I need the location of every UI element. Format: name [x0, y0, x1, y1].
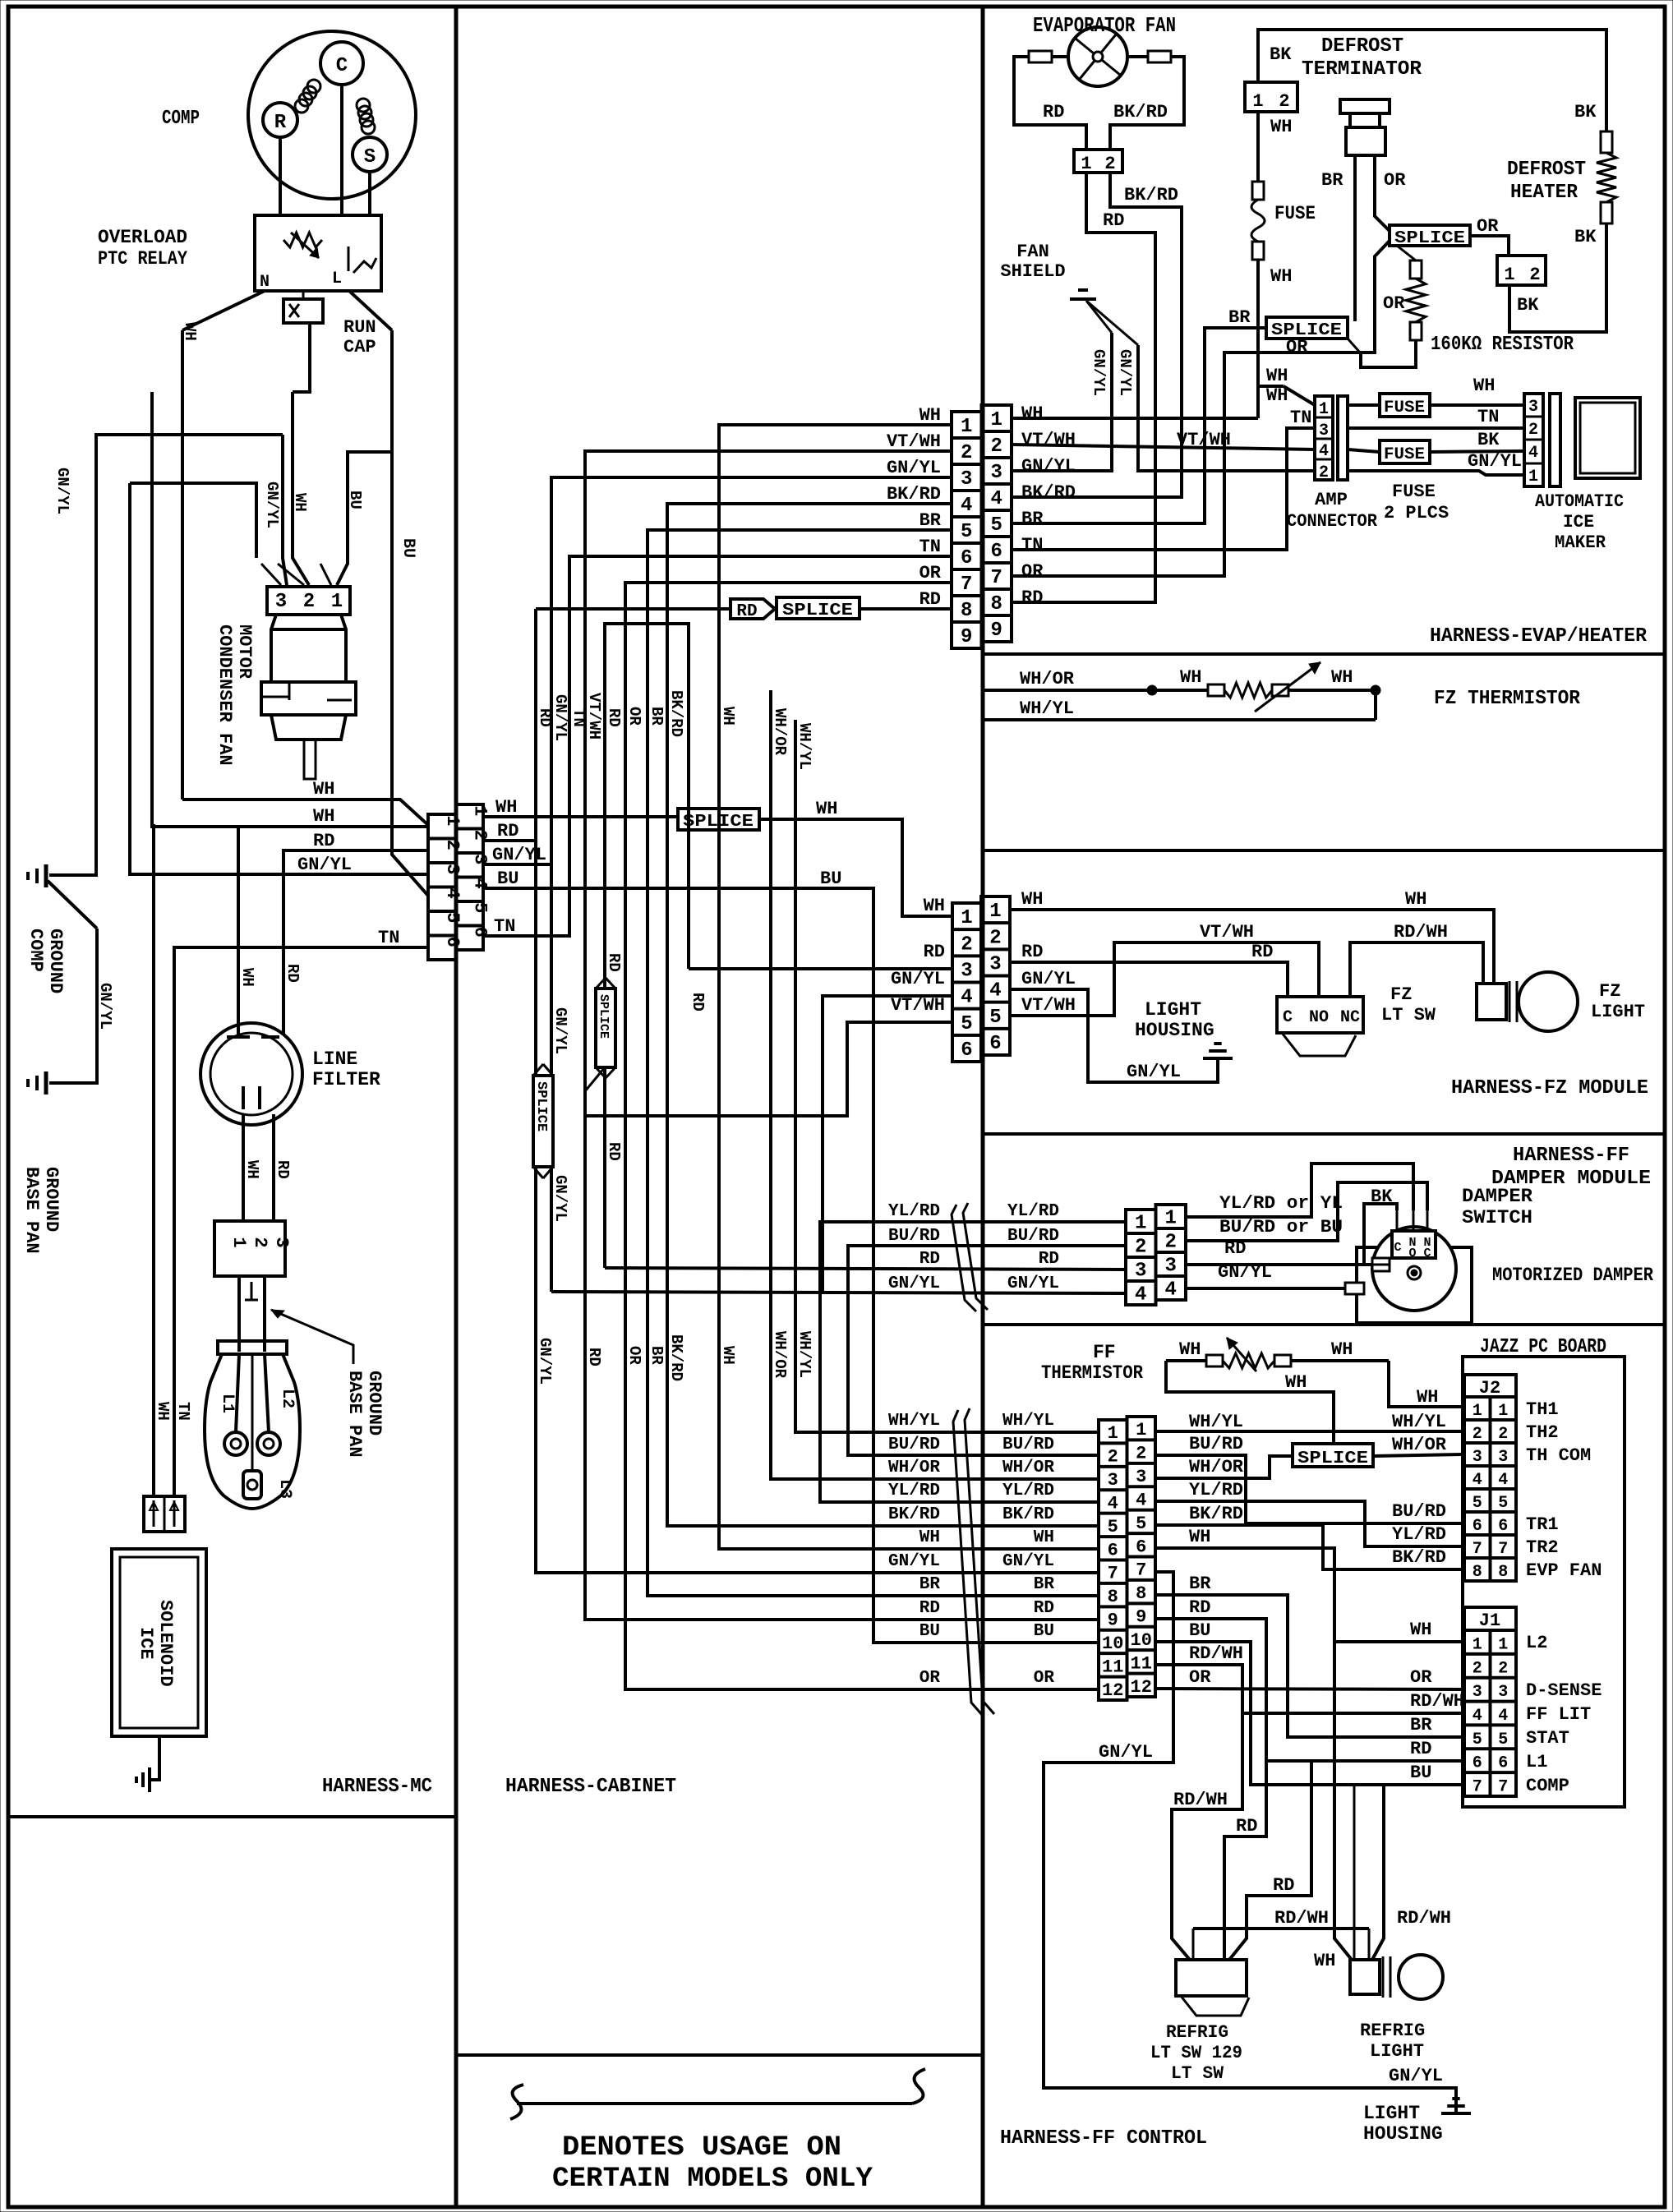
svg-text:WH: WH	[291, 493, 309, 512]
svg-text:WH: WH	[1180, 667, 1201, 688]
wire BU relay L to 6-pin row4	[349, 291, 428, 896]
svg-text:WH: WH	[1473, 376, 1495, 396]
svg-text:GN/YL: GN/YL	[1002, 1552, 1054, 1571]
svg-text:CONDENSER FAN: CONDENSER FAN	[214, 624, 235, 766]
svg-text:C: C	[336, 55, 348, 77]
12-pin left wire labels	[888, 1412, 1054, 1688]
svg-text:HOUSING: HOUSING	[1135, 1020, 1214, 1041]
svg-text:HARNESS-FF CONTROL: HARNESS-FF CONTROL	[1000, 2127, 1207, 2150]
svg-text:5: 5	[442, 912, 463, 923]
svg-text:RD/WH: RD/WH	[1274, 1908, 1329, 1929]
svg-text:10: 10	[1131, 1630, 1152, 1651]
compressor COMP	[162, 31, 416, 199]
svg-text:MOTORIZED DAMPER: MOTORIZED DAMPER	[1492, 1265, 1653, 1286]
svg-text:12: 12	[1102, 1680, 1123, 1701]
svg-text:RD: RD	[605, 953, 623, 972]
svg-text:TN: TN	[1021, 535, 1043, 555]
svg-text:BK/RD: BK/RD	[667, 1334, 685, 1381]
svg-text:1: 1	[1135, 1213, 1146, 1235]
svg-text:RD: RD	[1236, 1816, 1257, 1836]
svg-text:2: 2	[961, 442, 972, 464]
svg-text:1: 1	[1081, 154, 1091, 174]
svg-text:JAZZ PC BOARD: JAZZ PC BOARD	[1480, 1336, 1606, 1358]
svg-text:WH: WH	[1266, 366, 1288, 386]
svg-text:YL/RD or YL: YL/RD or YL	[1219, 1193, 1343, 1214]
svg-text:BU: BU	[1034, 1622, 1054, 1641]
svg-text:COMP: COMP	[1526, 1776, 1569, 1796]
svg-text:RD: RD	[919, 589, 941, 610]
wire BU 6-pin row4 to 12-pin row10	[378, 821, 1099, 1643]
svg-text:OVERLOAD: OVERLOAD	[98, 227, 187, 248]
svg-text:5: 5	[989, 1007, 1001, 1029]
svg-text:2: 2	[1498, 1659, 1508, 1678]
svg-text:BK: BK	[1574, 102, 1597, 122]
svg-text:GROUND: GROUND	[45, 929, 66, 993]
splice on GN/YL bus	[533, 1064, 553, 1178]
wire WH/OR fz-thermistor to 12-pin row3	[771, 690, 1099, 1479]
svg-text:GN/YL: GN/YL	[1021, 969, 1076, 989]
svg-text:4: 4	[1136, 1490, 1146, 1510]
svg-text:YL/RD: YL/RD	[1392, 1524, 1446, 1545]
svg-text:5: 5	[1108, 1517, 1118, 1537]
svg-text:WH/YL: WH/YL	[1020, 698, 1074, 719]
light housing ground ff	[1363, 2099, 1471, 2145]
svg-text:3: 3	[989, 953, 1001, 975]
svg-text:4: 4	[1473, 1471, 1482, 1490]
svg-text:2: 2	[1279, 91, 1289, 112]
svg-text:4: 4	[1528, 444, 1538, 463]
svg-text:YL/RD: YL/RD	[888, 1202, 940, 1221]
svg-text:C: C	[1423, 1247, 1431, 1260]
svg-text:VT/WH: VT/WH	[1177, 430, 1231, 450]
svg-text:BR: BR	[648, 1346, 666, 1365]
svg-text:BU/RD: BU/RD	[1002, 1435, 1054, 1454]
wire RD fz row3 to light switch C	[1010, 942, 1288, 997]
ff thermistor	[1041, 1338, 1389, 1444]
fuse on WH line	[1251, 112, 1316, 418]
svg-text:OR: OR	[1021, 561, 1044, 582]
svg-text:GN/YL: GN/YL	[891, 969, 945, 989]
defrost terminator	[1245, 35, 1422, 112]
svg-text:RD: RD	[1043, 102, 1064, 122]
svg-text:OR: OR	[1477, 216, 1499, 237]
svg-text:DAMPER: DAMPER	[1462, 1186, 1532, 1207]
svg-text:WH: WH	[1417, 1387, 1438, 1408]
svg-text:FUSE: FUSE	[1384, 445, 1425, 464]
svg-text:HARNESS-MC: HARNESS-MC	[322, 1776, 432, 1798]
svg-text:GROUND: GROUND	[364, 1371, 385, 1435]
svg-text:3: 3	[1473, 1683, 1482, 1702]
svg-text:TH COM: TH COM	[1526, 1445, 1591, 1466]
label harness-ff damper module	[1491, 1145, 1651, 1190]
svg-text:NC: NC	[1340, 1008, 1360, 1027]
svg-text:RD/WH: RD/WH	[1397, 1908, 1451, 1929]
svg-text:AUTOMATIC: AUTOMATIC	[1535, 491, 1624, 512]
svg-text:FAN: FAN	[1016, 242, 1049, 262]
svg-text:9: 9	[1108, 1611, 1118, 1631]
svg-text:WH: WH	[238, 968, 256, 987]
svg-text:RD/WH: RD/WH	[1173, 1790, 1228, 1810]
AMP connector	[1287, 396, 1378, 532]
svg-text:BU/RD or BU: BU/RD or BU	[1219, 1217, 1343, 1237]
splice on RD bus	[596, 978, 615, 1078]
svg-text:6: 6	[1473, 1754, 1482, 1773]
J2 connector	[1464, 1375, 1516, 1582]
svg-text:BK/RD: BK/RD	[887, 484, 941, 505]
svg-text:OR: OR	[919, 1669, 941, 1688]
svg-text:RD: RD	[313, 831, 334, 851]
wire RD evap pin1 down to 9-pin row8	[1012, 173, 1155, 602]
svg-text:SPLICE: SPLICE	[533, 1081, 549, 1131]
svg-text:3: 3	[1319, 422, 1329, 440]
svg-text:GN/YL: GN/YL	[888, 1274, 940, 1293]
svg-text:RD/WH: RD/WH	[1394, 922, 1448, 942]
svg-text:RD: RD	[1021, 942, 1043, 962]
svg-text:WH: WH	[154, 1402, 172, 1421]
wire BK/RD 9-pin row4 to 12-pin row5	[667, 504, 1099, 1526]
connector 4-pin damper	[1126, 1210, 1156, 1305]
J1 right labels	[1526, 1633, 1602, 1796]
svg-text:WH/YL: WH/YL	[1392, 1412, 1446, 1432]
wire GN/YL 9-pin row3 via splice to damper row4 and fz row4	[483, 477, 1126, 1385]
svg-text:3: 3	[1136, 1467, 1146, 1487]
wire WH/YL 12-pin row1 to J2 row2	[1155, 1412, 1464, 1432]
svg-text:WH: WH	[1034, 1528, 1054, 1547]
wire BU/RD to damper row2 and 12-pin row2	[848, 1246, 1126, 1455]
svg-text:GN/YL: GN/YL	[1468, 451, 1522, 472]
svg-text:WH: WH	[1410, 1620, 1431, 1640]
svg-text:7: 7	[1498, 1540, 1508, 1559]
svg-text:OR: OR	[1034, 1669, 1055, 1688]
wire OR terminator to splice2	[1375, 155, 1406, 231]
svg-text:OR: OR	[625, 707, 643, 726]
svg-text:TN: TN	[919, 537, 941, 557]
svg-text:COMP: COMP	[25, 929, 46, 972]
wire GN/YL fan shield to 9-pin row3	[1012, 333, 1112, 471]
svg-text:4: 4	[989, 980, 1001, 1002]
wire BK terminator to defrost heater loop	[1258, 30, 1606, 131]
svg-text:3: 3	[442, 864, 463, 874]
svg-text:9: 9	[1136, 1607, 1146, 1628]
refrig light bulb	[1314, 1785, 1443, 2062]
svg-text:VT/WH: VT/WH	[1200, 922, 1254, 942]
svg-text:3: 3	[1108, 1470, 1118, 1491]
wire WH to terminal	[154, 824, 172, 1496]
svg-text:HARNESS-CABINET: HARNESS-CABINET	[505, 1776, 676, 1798]
run cap	[283, 291, 376, 357]
svg-text:RD: RD	[1251, 942, 1273, 962]
svg-text:RD: RD	[274, 1160, 292, 1179]
svg-text:6: 6	[1136, 1537, 1146, 1557]
svg-text:3: 3	[1135, 1260, 1146, 1283]
svg-text:HOUSING: HOUSING	[1363, 2123, 1443, 2145]
svg-text:1: 1	[331, 591, 343, 613]
svg-text:6: 6	[961, 547, 972, 569]
svg-text:YL/RD: YL/RD	[1189, 1480, 1243, 1500]
svg-text:TN: TN	[1477, 407, 1499, 427]
svg-text:RD: RD	[283, 964, 302, 983]
svg-text:GN/YL: GN/YL	[888, 1552, 940, 1571]
wire damper row2 to switch right pin	[1186, 1182, 1427, 1241]
evaporator fan	[1033, 13, 1176, 86]
svg-text:N: N	[260, 273, 270, 292]
wire BR 12-pin row8 to J1 STAT	[1155, 1574, 1464, 1737]
svg-text:5: 5	[1498, 1494, 1508, 1513]
svg-text:WH/OR: WH/OR	[771, 1331, 789, 1379]
J2 right labels	[1526, 1399, 1602, 1581]
divider bottom of denotes box	[456, 2053, 983, 2057]
svg-text:WH/YL: WH/YL	[888, 1412, 940, 1431]
svg-text:GN/YL: GN/YL	[492, 845, 546, 865]
svg-text:8: 8	[1136, 1583, 1146, 1604]
svg-text:WH: WH	[313, 779, 334, 800]
wire VT/WH 9-pin row2 to fz row5 / RD branch to 12-pin row9	[585, 451, 1099, 1620]
svg-text:7: 7	[991, 567, 1002, 589]
wire BR 9-pin row5 to 12-pin row8	[648, 530, 1099, 1596]
svg-text:2: 2	[1473, 1659, 1482, 1678]
svg-text:BK/RD: BK/RD	[1021, 482, 1076, 503]
svg-text:2: 2	[991, 435, 1002, 458]
divider harness-MC / harness-cabinet	[8, 7, 456, 2207]
svg-text:CONNECTOR: CONNECTOR	[1287, 511, 1378, 532]
svg-text:WH: WH	[1270, 266, 1292, 287]
svg-text:3: 3	[991, 462, 1002, 484]
svg-text:AMP: AMP	[1315, 490, 1348, 510]
svg-text:BU: BU	[346, 491, 364, 509]
svg-text:L2: L2	[1526, 1633, 1547, 1653]
wire RD filter to plug connector	[274, 1114, 292, 1221]
jazz pc board	[1463, 1336, 1625, 1807]
svg-text:YL/RD: YL/RD	[1002, 1482, 1054, 1500]
svg-text:GN/YL: GN/YL	[1389, 2066, 1443, 2086]
svg-text:2: 2	[469, 830, 490, 841]
svg-text:WH: WH	[924, 896, 945, 916]
power plug connector 1 2 3	[214, 1221, 292, 1276]
splice BR/OR	[1266, 317, 1361, 357]
svg-text:BK/RD: BK/RD	[1392, 1547, 1446, 1568]
svg-text:1: 1	[991, 409, 1002, 431]
svg-text:BU: BU	[399, 538, 417, 558]
svg-text:3: 3	[275, 591, 287, 613]
fuse 2	[1348, 430, 1524, 464]
wire WH/YL fz-thermistor to 12-pin row1	[795, 720, 1099, 1432]
svg-text:7: 7	[1473, 1778, 1482, 1797]
svg-text:WH: WH	[1189, 1527, 1210, 1547]
wire compressor C to relay	[340, 85, 343, 215]
svg-text:RD: RD	[1103, 210, 1124, 231]
svg-text:BU/RD: BU/RD	[888, 1227, 940, 1246]
svg-text:1: 1	[1498, 1635, 1508, 1654]
svg-text:RD: RD	[1039, 1250, 1059, 1269]
connector 1 2 evap fan	[1074, 150, 1122, 174]
base pan ground	[21, 1071, 62, 1254]
svg-text:BK/RD: BK/RD	[667, 690, 685, 737]
svg-text:TN: TN	[378, 928, 399, 948]
svg-text:VT/WH: VT/WH	[887, 431, 941, 452]
svg-text:4: 4	[1108, 1493, 1118, 1514]
fan shield ground	[1000, 242, 1138, 345]
svg-text:BR: BR	[648, 707, 666, 726]
svg-text:BK/RD: BK/RD	[1002, 1505, 1054, 1524]
splice2 OR	[1390, 216, 1499, 248]
svg-text:WH: WH	[1179, 1339, 1201, 1360]
svg-text:R: R	[274, 112, 287, 134]
wire WH 9-pin row1 to 12-pin row6	[719, 425, 1099, 1549]
svg-text:3: 3	[961, 960, 972, 982]
svg-text:WH: WH	[243, 1160, 261, 1179]
svg-text:HARNESS-EVAP/HEATER: HARNESS-EVAP/HEATER	[1430, 625, 1648, 647]
svg-text:2 PLCS: 2 PLCS	[1384, 503, 1449, 523]
wire RD bus2 to fz row3 and damper row3, with splice	[585, 624, 1126, 1270]
svg-text:LT SW: LT SW	[1381, 1005, 1436, 1025]
svg-text:GN/YL: GN/YL	[1099, 1742, 1153, 1763]
svg-text:WH: WH	[1405, 889, 1426, 910]
automatic ice maker	[1535, 398, 1640, 553]
svg-text:TN: TN	[1290, 408, 1311, 428]
svg-text:WH/YL: WH/YL	[795, 723, 813, 770]
section divider fz thermistor bottom	[983, 849, 1665, 852]
fz light switch	[1277, 984, 1436, 1056]
svg-text:FF: FF	[1093, 1342, 1116, 1363]
refrig lt sw	[1150, 1908, 1451, 2084]
wire WH 12-pin row6 to J1 L2 and refrig light	[1155, 1527, 1464, 1960]
svg-text:OR: OR	[1383, 293, 1405, 314]
svg-text:WH/OR: WH/OR	[1189, 1457, 1244, 1477]
svg-text:OR: OR	[1384, 170, 1406, 191]
svg-text:RD/WH: RD/WH	[1410, 1691, 1464, 1712]
wire BR terminator to splice	[1321, 155, 1355, 321]
svg-text:WH/YL: WH/YL	[1002, 1412, 1054, 1431]
svg-text:WH/OR: WH/OR	[888, 1459, 940, 1477]
svg-text:GN/YL: GN/YL	[1007, 1274, 1059, 1293]
svg-text:L2: L2	[278, 1389, 297, 1408]
svg-text:7: 7	[1136, 1560, 1146, 1581]
svg-text:1: 1	[1252, 91, 1263, 112]
wire WH line filter to WH net	[238, 827, 256, 1035]
svg-text:WH/YL: WH/YL	[1189, 1412, 1243, 1432]
svg-text:2: 2	[1108, 1447, 1118, 1468]
svg-text:7: 7	[1473, 1540, 1482, 1559]
svg-text:J1: J1	[1479, 1611, 1500, 1631]
svg-text:VT/WH: VT/WH	[585, 693, 603, 740]
wire BK/RD 12-pin row5 to J2 EVP FAN	[1155, 1504, 1464, 1569]
svg-text:SPLICE: SPLICE	[1297, 1449, 1368, 1468]
svg-text:9: 9	[961, 626, 972, 648]
ice maker connector	[1524, 394, 1560, 486]
svg-text:BU: BU	[1410, 1763, 1431, 1783]
svg-text:2: 2	[1165, 1232, 1177, 1254]
svg-text:GN/YL: GN/YL	[96, 983, 114, 1030]
svg-text:WH: WH	[495, 797, 517, 818]
svg-text:GROUND: GROUND	[41, 1167, 62, 1232]
damper 4-pin right labels	[1218, 1193, 1343, 1283]
svg-text:1: 1	[989, 901, 1001, 923]
svg-text:WH: WH	[919, 1528, 940, 1547]
wire TN 6-pin row6 to terminal	[174, 916, 515, 1496]
svg-text:RD: RD	[605, 708, 623, 727]
svg-text:EVP FAN: EVP FAN	[1526, 1560, 1602, 1581]
svg-text:BK/RD: BK/RD	[1113, 102, 1168, 122]
wire RD/WH 12-pin row11 to J1 FF LIT and refrig lt sw	[1155, 1643, 1464, 1960]
svg-text:RD: RD	[1189, 1597, 1210, 1618]
wire GN/YL condenser pin3 to comp ground and 6-pin row3	[48, 435, 428, 1083]
svg-text:SPLICE: SPLICE	[683, 813, 754, 832]
condenser fan motor connector pins 3 2 1	[267, 587, 350, 615]
svg-text:1: 1	[1473, 1635, 1482, 1654]
svg-text:BU/RD: BU/RD	[888, 1435, 940, 1454]
wire RD/WH light switch NC to fz light	[1350, 922, 1483, 997]
svg-text:2: 2	[250, 1237, 270, 1247]
svg-text:160KΩ RESISTOR: 160KΩ RESISTOR	[1431, 334, 1574, 356]
svg-text:SOLENOID: SOLENOID	[155, 1600, 176, 1687]
svg-text:LT SW 129: LT SW 129	[1150, 2043, 1242, 2063]
condenser fan motor	[214, 615, 356, 779]
svg-text:BU: BU	[919, 1622, 940, 1641]
svg-text:BR: BR	[1021, 509, 1044, 529]
svg-text:8: 8	[1473, 1563, 1482, 1582]
connector 1 2 defrost heater	[1497, 256, 1546, 285]
wire BU 12-pin row10 to J1 COMP and refrig light	[1155, 1620, 1464, 1960]
svg-text:2: 2	[1528, 421, 1538, 440]
svg-text:WH: WH	[719, 1346, 737, 1365]
svg-text:6: 6	[961, 1039, 972, 1062]
svg-text:FUSE: FUSE	[1392, 482, 1436, 502]
wire RD 9-pin row8 via splice down to 6-pin row2	[483, 597, 1099, 1573]
svg-text:S: S	[364, 146, 376, 168]
svg-text:6: 6	[1108, 1540, 1118, 1560]
svg-text:5: 5	[1498, 1730, 1508, 1749]
svg-text:8: 8	[1108, 1587, 1118, 1607]
svg-text:WH: WH	[181, 322, 199, 341]
svg-text:10: 10	[1102, 1634, 1123, 1654]
section divider harness-evap/heater bottom	[983, 652, 1665, 656]
svg-text:5: 5	[961, 521, 972, 543]
divider harness-cabinet / right column	[981, 7, 985, 2207]
svg-text:WH: WH	[919, 405, 941, 426]
svg-text:BU/RD: BU/RD	[1007, 1227, 1059, 1246]
wire RD 12-pin row9 to J1 L1 and refrig lt sw	[1155, 1597, 1464, 1960]
svg-text:LINE: LINE	[312, 1048, 357, 1070]
svg-text:1: 1	[961, 416, 972, 438]
svg-text:GN/YL: GN/YL	[297, 855, 352, 875]
svg-text:SPLICE: SPLICE	[1394, 229, 1465, 248]
svg-text:ICE: ICE	[136, 1627, 156, 1660]
defrost heater	[1507, 131, 1616, 247]
svg-text:RD: RD	[1034, 1599, 1054, 1618]
svg-text:2: 2	[1319, 463, 1329, 482]
svg-text:LIGHT: LIGHT	[1591, 1002, 1645, 1022]
svg-text:GN/YL: GN/YL	[1090, 349, 1108, 396]
svg-text:1: 1	[961, 907, 972, 929]
svg-text:BR: BR	[919, 510, 942, 531]
svg-text:2: 2	[303, 591, 315, 613]
svg-text:7: 7	[1498, 1778, 1508, 1797]
svg-text:SPLICE: SPLICE	[597, 994, 611, 1039]
svg-text:GN/YL: GN/YL	[1127, 1062, 1181, 1082]
svg-text:WH: WH	[719, 707, 737, 726]
9-pin left wire labels	[887, 405, 942, 610]
fz light bulb	[1477, 972, 1645, 1031]
svg-text:BK: BK	[1574, 227, 1597, 247]
svg-text:FUSE: FUSE	[1274, 203, 1316, 224]
svg-text:SPLICE: SPLICE	[782, 601, 853, 620]
svg-text:REFRIG: REFRIG	[1166, 2022, 1228, 2043]
svg-text:FUSE: FUSE	[1384, 399, 1425, 417]
wire solenoid to ground	[150, 1736, 159, 1780]
wire GN/YL fz row4 to light housing ground	[1010, 989, 1218, 1082]
svg-text:RD: RD	[1021, 588, 1043, 608]
ice solenoid	[112, 1549, 206, 1736]
